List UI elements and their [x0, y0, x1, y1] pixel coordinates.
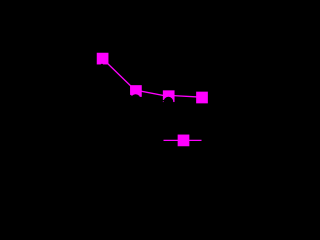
- node P3 square marker: [163, 90, 175, 102]
- node B3 black circle marker: [164, 97, 174, 107]
- wire black overlay line P2-P3: [136, 98, 169, 101]
- wire magenta series segment P3-P4: [169, 95, 202, 97]
- wire magenta series segment P1-P2: [103, 59, 136, 91]
- node legend square marker: [178, 135, 190, 147]
- node B2 black circle marker: [131, 94, 141, 104]
- node P1 square marker: [97, 53, 109, 65]
- wire magenta series segment P2-P3: [136, 90, 169, 96]
- wire black overlay corner cut at P2: [129, 95, 135, 99]
- node B1 black circle marker: [101, 64, 104, 67]
- node P4 square marker: [196, 92, 208, 104]
- wire legend sample line: [164, 139, 202, 141]
- node P2 square marker: [130, 85, 142, 97]
